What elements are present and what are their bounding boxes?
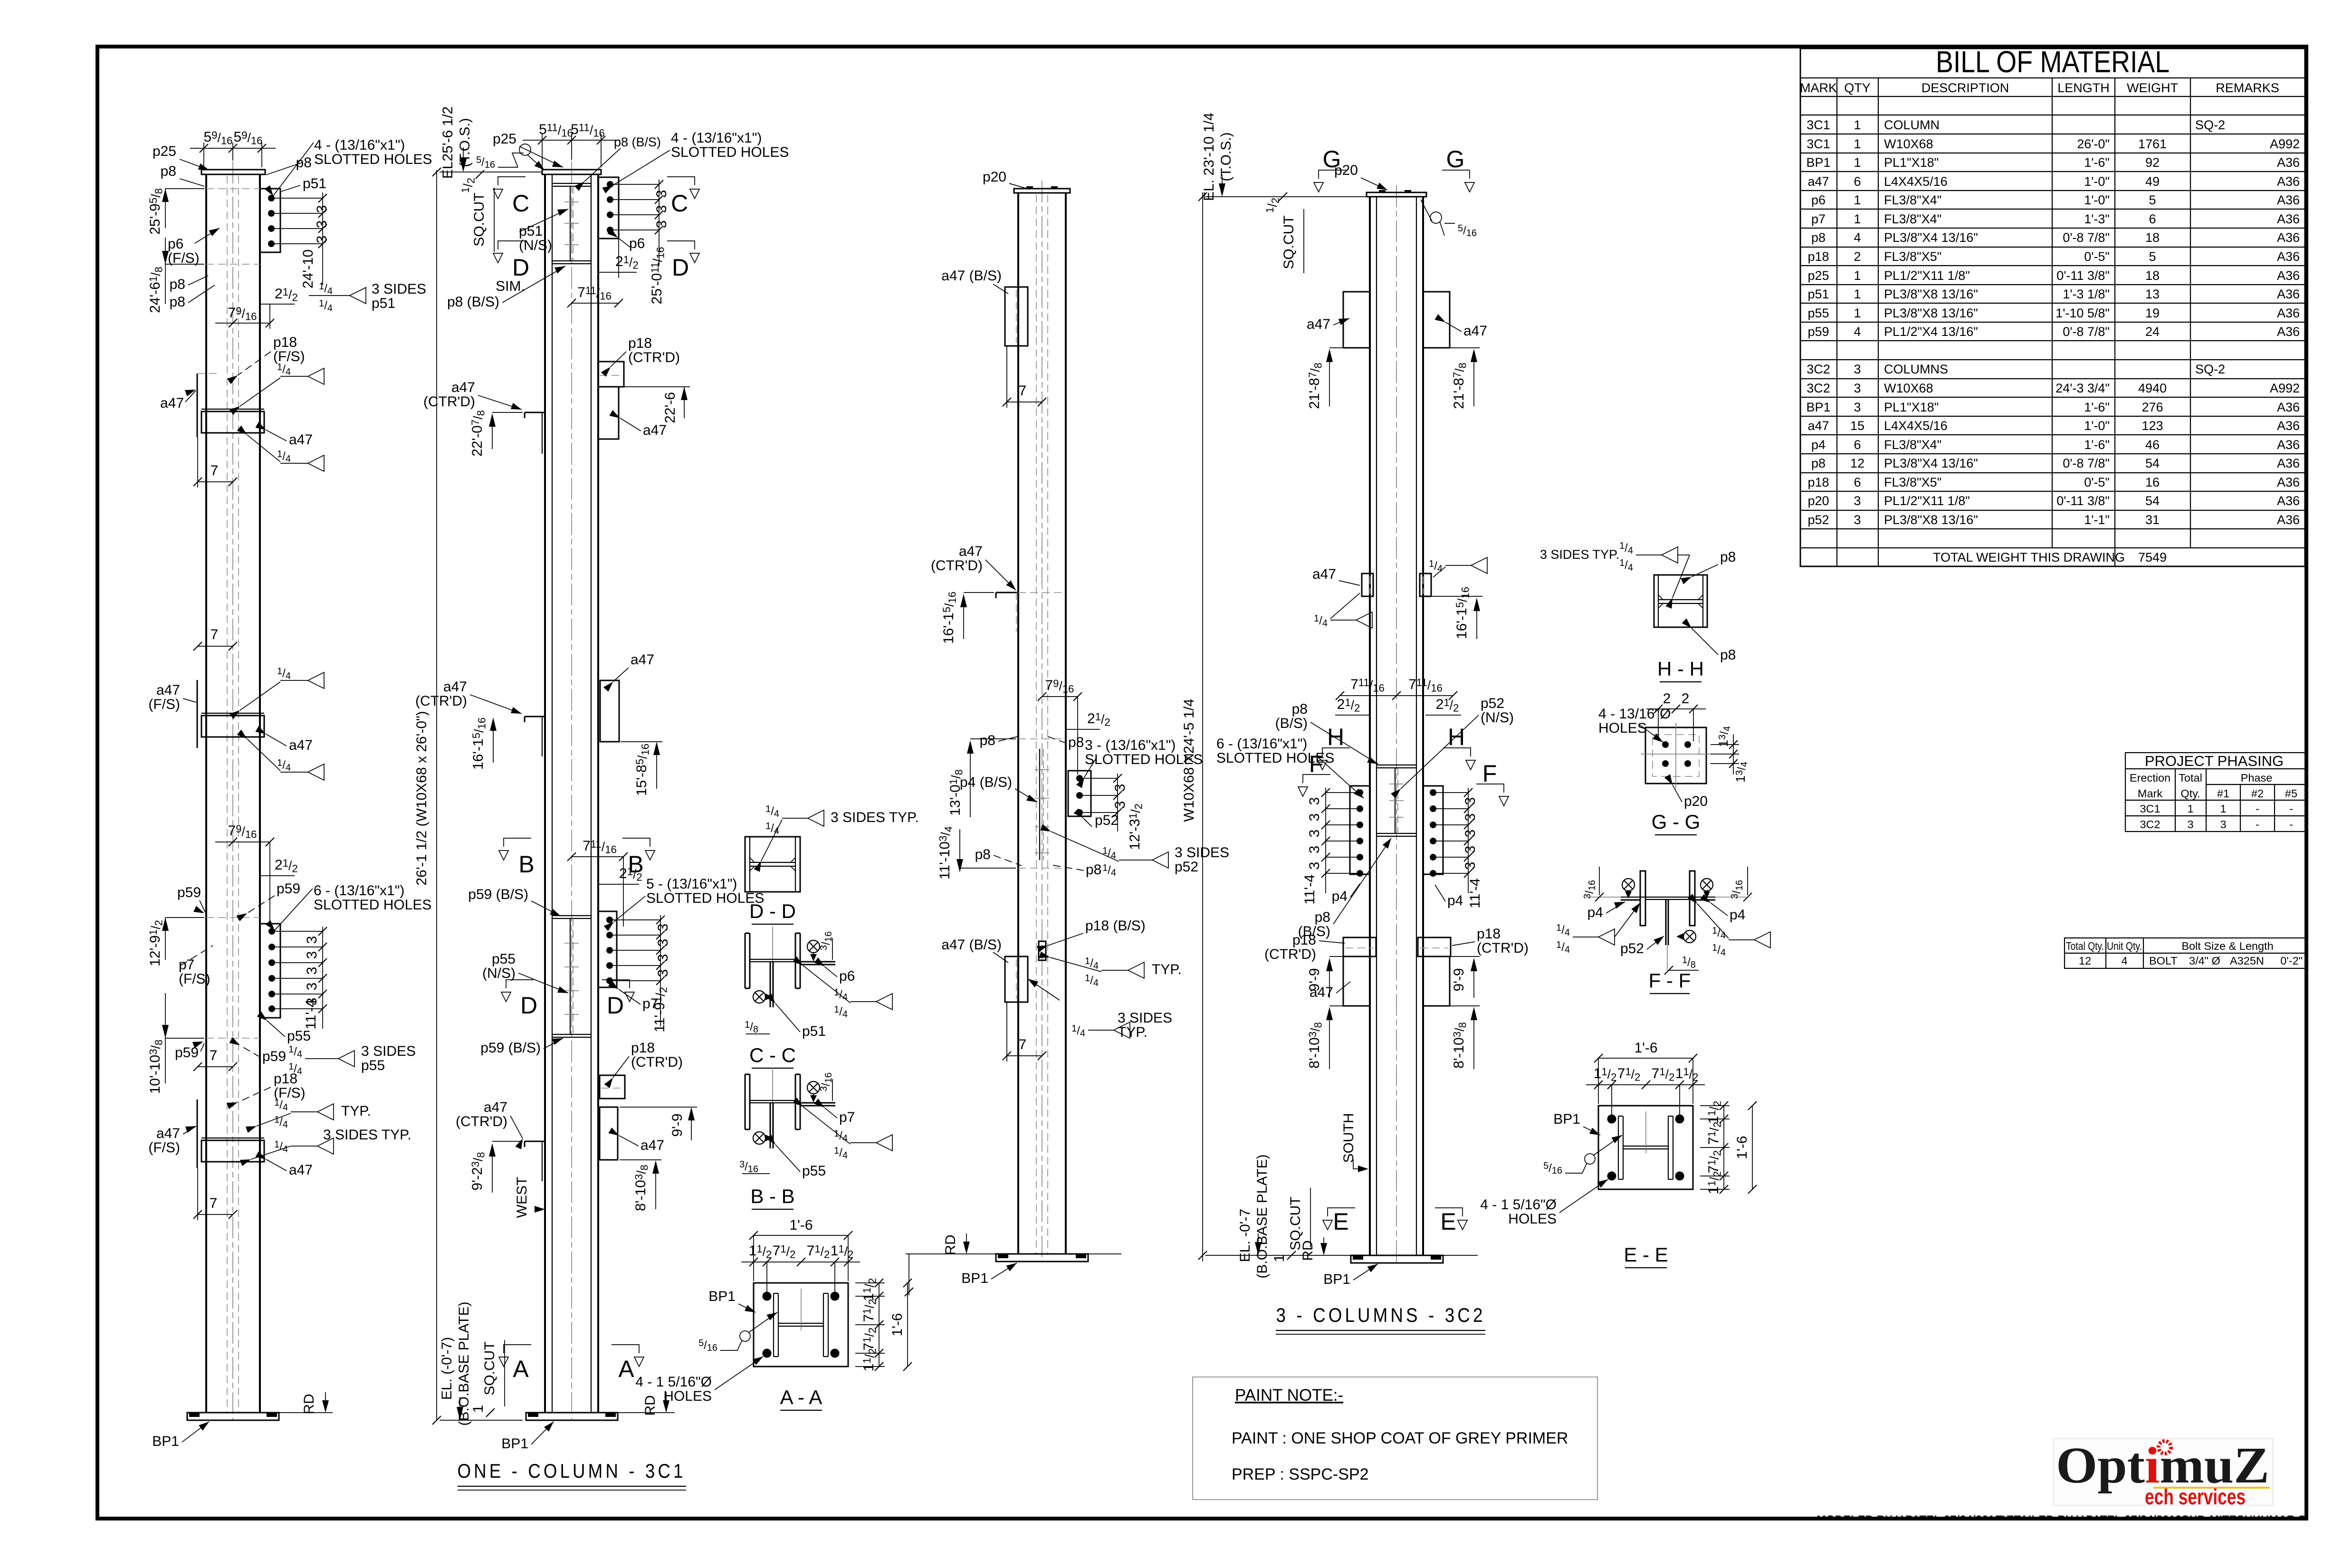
base plate BP1 column2 — [526, 1413, 618, 1420]
svg-text:(F/S): (F/S) — [179, 971, 210, 987]
svg-text:1: 1 — [1854, 212, 1861, 226]
svg-text:1'-3": 1'-3" — [2084, 212, 2110, 226]
svg-text:Phase: Phase — [2241, 772, 2273, 784]
svg-text:1'-0": 1'-0" — [2084, 174, 2110, 189]
svg-text:FL3/8"X5": FL3/8"X5" — [1884, 249, 1941, 264]
bolt summary table — [2065, 938, 2306, 968]
svg-text:Mark: Mark — [2138, 787, 2162, 800]
svg-text:3 SIDES TYP.: 3 SIDES TYP. — [831, 810, 919, 825]
svg-text:p8: p8 — [1720, 549, 1736, 565]
svg-text:6: 6 — [1854, 475, 1861, 489]
svg-text:p8: p8 — [1292, 701, 1308, 717]
svg-text:1'-0": 1'-0" — [2084, 419, 2110, 433]
connection plate p51 with bolts — [260, 189, 327, 285]
svg-text:3: 3 — [655, 969, 671, 977]
svg-text:FL3/8"X5": FL3/8"X5" — [1884, 475, 1941, 489]
column 3C2 body flange view — [1018, 181, 1066, 1262]
svg-text:54: 54 — [2145, 456, 2160, 470]
svg-text:21'-87/8: 21'-87/8 — [1451, 363, 1469, 409]
a47 CTR'D angle col3 mid — [996, 593, 1018, 598]
svg-text:p52: p52 — [1620, 941, 1644, 956]
p18 (B/S) bar col3 — [1039, 941, 1046, 960]
svg-text:6: 6 — [1854, 174, 1861, 189]
section D markers — [498, 241, 526, 249]
svg-text:p4: p4 — [1811, 438, 1826, 452]
base plate BP1 col3 — [905, 1254, 1121, 1296]
PROJECT PHASING table — [2125, 753, 2306, 832]
svg-text:FL3/8"X4": FL3/8"X4" — [1884, 212, 1941, 226]
svg-text:18: 18 — [2145, 268, 2160, 283]
svg-text:Bolt Size & Length: Bolt Size & Length — [2181, 940, 2273, 952]
svg-text:HOLES: HOLES — [663, 1388, 712, 1404]
svg-text:E: E — [1440, 1208, 1456, 1235]
svg-text:p59 (B/S): p59 (B/S) — [480, 1040, 541, 1056]
svg-text:COLUMN: COLUMN — [1884, 118, 1940, 132]
BOM header row — [1800, 81, 2279, 95]
svg-text:p20: p20 — [1807, 494, 1829, 508]
svg-text:3: 3 — [655, 924, 671, 932]
svg-text:3 - COLUMNS - 3C2: 3 - COLUMNS - 3C2 — [1276, 1304, 1486, 1326]
svg-text:p18: p18 — [1477, 926, 1501, 942]
svg-text:LENGTH: LENGTH — [2057, 81, 2110, 95]
svg-text:1'-6": 1'-6" — [2084, 400, 2110, 414]
svg-text:12'-91/2: 12'-91/2 — [147, 920, 165, 966]
splice dashed lines col3 — [1018, 738, 1066, 739]
svg-text:p59: p59 — [277, 881, 300, 897]
clip angle a47 band 3 — [197, 1100, 264, 1168]
cap plate p20 plan view — [1645, 727, 1706, 784]
svg-text:3: 3 — [2220, 818, 2226, 831]
svg-text:a47: a47 — [1312, 566, 1336, 582]
svg-text:4: 4 — [1854, 230, 1861, 245]
svg-text:SQ-2: SQ-2 — [2195, 118, 2225, 132]
svg-text:8'-103/8: 8'-103/8 — [1307, 1022, 1324, 1069]
svg-text:3C2: 3C2 — [1807, 362, 1830, 376]
svg-text:3: 3 — [1307, 862, 1322, 870]
svg-text:p52: p52 — [1807, 513, 1829, 527]
svg-text:1'-0": 1'-0" — [2084, 193, 2110, 207]
svg-text:E: E — [1333, 1208, 1348, 1235]
svg-text:4 - (13/16"x1"): 4 - (13/16"x1") — [314, 137, 405, 153]
svg-text:3 SIDES: 3 SIDES — [1118, 1010, 1172, 1026]
svg-text:HOLES: HOLES — [1508, 1211, 1557, 1227]
svg-text:PL1"X18": PL1"X18" — [1884, 155, 1939, 170]
overall extension line col4 — [1202, 192, 1203, 1262]
svg-text:A36: A36 — [2277, 249, 2300, 264]
svg-text:a47: a47 — [289, 1162, 313, 1178]
connection plate p55 with bolts — [260, 924, 327, 1029]
section E markers — [1328, 1208, 1355, 1216]
svg-text:0'-11 3/8": 0'-11 3/8" — [2056, 268, 2110, 283]
svg-text:p7: p7 — [1811, 212, 1826, 226]
svg-text:A36: A36 — [2277, 475, 2300, 489]
svg-text:BP1: BP1 — [1806, 155, 1830, 170]
svg-text:a47: a47 — [631, 652, 654, 668]
svg-text:EL25'-6 1/2: EL25'-6 1/2 — [440, 106, 456, 179]
svg-text:3: 3 — [314, 205, 330, 213]
svg-text:A36: A36 — [2277, 212, 2300, 226]
hidden p4 plate center dashes — [1039, 749, 1040, 860]
svg-text:QTY: QTY — [1844, 81, 1871, 95]
svg-text:Total Qty.: Total Qty. — [2066, 940, 2104, 952]
svg-text:p59: p59 — [1807, 325, 1829, 339]
svg-text:SLOTTED HOLES: SLOTTED HOLES — [314, 897, 431, 913]
left dims 12'-9 1/2 and 10'-10 3/8 — [165, 918, 204, 1083]
svg-text:11'-4: 11'-4 — [1467, 878, 1483, 908]
svg-text:(N/S): (N/S) — [519, 238, 552, 253]
a47 CTR'D angle left mid — [525, 412, 545, 454]
svg-text:3 SIDES TYP.: 3 SIDES TYP. — [323, 1127, 411, 1143]
svg-text:3: 3 — [654, 205, 669, 213]
svg-text:SLOTTED HOLES: SLOTTED HOLES — [671, 144, 789, 160]
svg-text:BOLT: BOLT — [2149, 955, 2178, 967]
svg-text:BP1: BP1 — [1806, 400, 1830, 414]
cap plate p20 col4 — [1367, 192, 1426, 197]
svg-text:11'-4: 11'-4 — [1302, 874, 1318, 905]
svg-text:EL. -0'-7: EL. -0'-7 — [1237, 1209, 1253, 1262]
svg-text:p8: p8 — [1811, 456, 1826, 470]
svg-text:PAINT NOTE:-: PAINT NOTE:- — [1235, 1386, 1343, 1405]
svg-text:3C2: 3C2 — [2140, 818, 2160, 831]
column section inside — [774, 1293, 828, 1357]
svg-text:BP1: BP1 — [1323, 1272, 1350, 1287]
svg-text:p8: p8 — [980, 733, 995, 748]
svg-text:RD: RD — [1300, 1240, 1316, 1261]
bolt plates p4 col4 — [1321, 786, 1370, 893]
svg-text:1: 1 — [1854, 268, 1861, 283]
svg-text:1: 1 — [2220, 803, 2226, 815]
svg-text:(N/S): (N/S) — [1481, 710, 1514, 726]
svg-text:10'-103/8: 10'-103/8 — [147, 1040, 165, 1094]
svg-text:SOUTH: SOUTH — [1341, 1113, 1357, 1163]
right dims 1 3/4 G-G — [1711, 744, 1739, 745]
svg-text:L4X4X5/16: L4X4X5/16 — [1884, 174, 1948, 189]
svg-text:(N/S): (N/S) — [482, 966, 516, 981]
svg-text:11'-4: 11'-4 — [303, 999, 319, 1030]
BOM grid vertical lines — [1837, 78, 2190, 566]
svg-text:7: 7 — [1019, 383, 1027, 399]
base plate BP1 plan E-E — [1598, 1106, 1693, 1189]
svg-text:p4: p4 — [1332, 889, 1348, 904]
svg-text:-: - — [2289, 803, 2293, 815]
svg-text:-: - — [2289, 818, 2293, 831]
svg-text:SLOTTED HOLES: SLOTTED HOLES — [646, 890, 764, 906]
svg-text:6: 6 — [1854, 438, 1861, 452]
svg-text:3 SIDES: 3 SIDES — [372, 281, 426, 297]
connection plate p7 with bolts — [598, 911, 665, 1026]
svg-text:F: F — [1482, 760, 1497, 787]
svg-text:-: - — [2256, 803, 2259, 815]
svg-text:p25: p25 — [153, 143, 176, 159]
a47 right rect mid (15'-8 5/16) — [600, 680, 619, 742]
svg-text:p51: p51 — [303, 176, 326, 191]
section C-C body — [745, 933, 746, 988]
top splice plates p8 and stiffener p51 N/S — [552, 183, 591, 264]
svg-text:p8: p8 — [1086, 862, 1101, 878]
svg-text:p52: p52 — [1481, 696, 1504, 711]
OptimuZ tech services logo — [2054, 1437, 2273, 1509]
svg-text:COLUMNS: COLUMNS — [1884, 362, 1948, 376]
svg-text:0'-11 3/8": 0'-11 3/8" — [2056, 494, 2110, 508]
svg-text:#1: #1 — [2217, 787, 2229, 800]
a47 upper blocks col4 — [1343, 292, 1370, 348]
svg-text:p25: p25 — [493, 131, 516, 147]
svg-text:p55: p55 — [1807, 306, 1829, 320]
svg-text:3C1: 3C1 — [1807, 118, 1830, 132]
svg-text:B: B — [518, 851, 534, 878]
svg-text:ONE - COLUMN - 3C1: ONE - COLUMN - 3C1 — [458, 1460, 686, 1482]
svg-text:3/4" Ø: 3/4" Ø — [2189, 955, 2220, 967]
svg-text:13'-01/8: 13'-01/8 — [947, 769, 965, 816]
svg-text:3: 3 — [1854, 494, 1861, 508]
right dims E-E — [1700, 1105, 1730, 1106]
svg-text:3: 3 — [1854, 381, 1861, 395]
svg-text:3: 3 — [1463, 830, 1478, 838]
section C markers top — [498, 177, 526, 185]
svg-text:a47: a47 — [1807, 174, 1829, 189]
svg-text:5: 5 — [2149, 249, 2156, 264]
svg-text:C - C: C - C — [749, 1044, 796, 1066]
svg-text:p8: p8 — [1068, 735, 1084, 750]
svg-text:8'-103/8: 8'-103/8 — [1451, 1022, 1469, 1069]
svg-text:TYP.: TYP. — [341, 1103, 371, 1119]
svg-text:3: 3 — [1307, 797, 1322, 805]
svg-text:a47: a47 — [443, 679, 467, 695]
svg-text:a47: a47 — [484, 1100, 507, 1115]
svg-text:PL3/8"X8 13/16": PL3/8"X8 13/16" — [1884, 513, 1978, 527]
section F markers — [1303, 774, 1330, 783]
anchor holes — [763, 1292, 772, 1301]
svg-text:ech services: ech services — [2145, 1484, 2246, 1509]
svg-text:p6: p6 — [839, 968, 855, 984]
svg-text:1: 1 — [1854, 306, 1861, 320]
svg-text:p8 (B/S): p8 (B/S) — [614, 135, 661, 149]
svg-text:D: D — [607, 992, 624, 1019]
svg-text:8'-103/8: 8'-103/8 — [633, 1165, 650, 1211]
lower splice plates p59 and stiffener p55 N/S — [552, 916, 591, 1037]
a47 angle right below p18 — [598, 387, 619, 439]
a47 mid small angles col4 — [1362, 574, 1431, 596]
svg-text:WEST: WEST — [514, 1177, 530, 1218]
clipped title block text at bottom edge — [0, 1513, 2352, 1568]
svg-text:PL3/8"X4 13/16": PL3/8"X4 13/16" — [1884, 456, 1978, 470]
hidden web dashed lines — [227, 176, 228, 1413]
svg-text:18: 18 — [2145, 230, 2160, 245]
svg-text:PL1"X18": PL1"X18" — [1884, 400, 1939, 414]
svg-text:p51: p51 — [1807, 287, 1829, 301]
ext lines 3/16 left — [1587, 897, 1621, 898]
svg-text:3: 3 — [655, 939, 671, 947]
svg-text:A - A: A - A — [780, 1386, 822, 1408]
svg-text:p18: p18 — [273, 335, 297, 350]
svg-text:19: 19 — [2145, 306, 2160, 320]
svg-text:31: 31 — [2145, 513, 2160, 527]
svg-text:6 - (13/16"x1"): 6 - (13/16"x1") — [314, 883, 404, 899]
a47 CTR'D left angle bottom col2 — [525, 1141, 545, 1181]
splice dashed lines p8 levels — [206, 188, 260, 189]
svg-text:(CTR'D): (CTR'D) — [931, 558, 983, 574]
svg-text:3 - (13/16"x1"): 3 - (13/16"x1") — [1085, 737, 1176, 753]
svg-text:(CTR'D): (CTR'D) — [631, 1054, 683, 1070]
svg-text:p8: p8 — [170, 294, 185, 310]
svg-text:p52: p52 — [1095, 813, 1119, 828]
svg-text:4: 4 — [1854, 325, 1861, 339]
base plate BP1 col4 — [1205, 1255, 1478, 1263]
svg-text:A36: A36 — [2277, 456, 2300, 470]
svg-text:1761: 1761 — [2138, 137, 2167, 151]
svg-text:p55: p55 — [492, 951, 516, 967]
plug welds — [807, 940, 820, 953]
section H markers — [1322, 748, 1350, 756]
svg-text:C: C — [512, 190, 529, 217]
svg-text:2: 2 — [1663, 691, 1671, 707]
svg-text:7: 7 — [210, 627, 219, 642]
svg-text:p7: p7 — [839, 1109, 855, 1125]
svg-text:1'-3 1/8": 1'-3 1/8" — [2063, 287, 2110, 301]
svg-text:D: D — [512, 254, 529, 281]
svg-text:3: 3 — [304, 983, 320, 991]
p6 plate extending right — [800, 961, 835, 963]
svg-text:1'-6": 1'-6" — [2084, 438, 2110, 452]
svg-text:EL. (-0'-7): EL. (-0'-7) — [439, 1337, 455, 1400]
svg-text:a47: a47 — [156, 682, 180, 698]
svg-text:PL1/2"X11 1/8": PL1/2"X11 1/8" — [1884, 494, 1970, 508]
section G markers — [1319, 170, 1346, 179]
svg-text:1: 1 — [1854, 155, 1861, 170]
svg-text:7: 7 — [1019, 1037, 1027, 1052]
BOM rows 3C2 group — [1806, 362, 2300, 527]
svg-text:PREP : SSPC-SP2: PREP : SSPC-SP2 — [1232, 1465, 1369, 1483]
svg-text:A: A — [513, 1356, 529, 1382]
svg-text:49: 49 — [2145, 174, 2160, 189]
svg-text:#2: #2 — [2251, 787, 2264, 800]
svg-text:p4 (B/S): p4 (B/S) — [960, 774, 1012, 790]
svg-text:15: 15 — [1850, 419, 1864, 433]
svg-text:3: 3 — [1854, 513, 1861, 527]
p59 splice dashed lines — [206, 917, 260, 918]
svg-text:276: 276 — [2142, 400, 2163, 414]
a47 (B/S) upper rect col3 — [1005, 287, 1028, 346]
svg-text:WEIGHT: WEIGHT — [2127, 81, 2178, 95]
weld flags at band1 — [280, 376, 308, 377]
svg-text:5 - (13/16"x1"): 5 - (13/16"x1") — [646, 876, 737, 892]
svg-text:3: 3 — [655, 954, 671, 962]
svg-text:SQ.CUT: SQ.CUT — [471, 192, 487, 246]
svg-text:p6: p6 — [629, 236, 645, 251]
svg-text:3: 3 — [654, 220, 669, 229]
svg-text:3: 3 — [1463, 846, 1478, 854]
svg-text:(CTR'D): (CTR'D) — [456, 1114, 507, 1129]
svg-text:1'-6": 1'-6" — [2084, 155, 2110, 170]
svg-text:FL3/8"X4": FL3/8"X4" — [1884, 193, 1941, 207]
svg-text:3: 3 — [2187, 818, 2193, 831]
svg-text:p8: p8 — [975, 847, 991, 862]
svg-text:7: 7 — [210, 463, 219, 478]
svg-text:PL3/8"X8 13/16": PL3/8"X8 13/16" — [1884, 287, 1978, 301]
BOM grid horizontal lines — [1800, 78, 2305, 548]
svg-text:A36: A36 — [2277, 494, 2300, 508]
svg-text:0'-8 7/8": 0'-8 7/8" — [2063, 456, 2110, 470]
svg-text:1: 1 — [1854, 137, 1861, 151]
svg-text:D: D — [672, 254, 689, 281]
svg-text:26'-1 1/2 (W10X68 x 26'-0"): 26'-1 1/2 (W10X68 x 26'-0") — [414, 711, 430, 885]
section B-B body — [745, 1074, 746, 1129]
svg-text:p18 (B/S): p18 (B/S) — [1085, 918, 1146, 934]
svg-text:3: 3 — [1112, 784, 1128, 792]
svg-text:Qty.: Qty. — [2180, 787, 2200, 800]
svg-text:-: - — [2256, 818, 2259, 831]
svg-text:0'-2": 0'-2" — [2280, 955, 2303, 967]
left elevation dims 25'-9 5/8 / 24'-6 1/8 — [165, 189, 204, 304]
svg-text:(CTR'D): (CTR'D) — [415, 693, 467, 709]
column 3C2 web view body — [1370, 185, 1423, 1263]
a47 right rect lower col2 — [600, 1107, 618, 1160]
svg-text:B - B: B - B — [750, 1185, 794, 1207]
svg-text:BP1: BP1 — [961, 1271, 988, 1286]
svg-text:PROJECT PHASING: PROJECT PHASING — [2145, 753, 2284, 769]
svg-text:6: 6 — [2149, 212, 2156, 226]
svg-text:p59: p59 — [262, 1049, 286, 1064]
svg-text:7549: 7549 — [2138, 550, 2167, 564]
svg-text:L4X4X5/16: L4X4X5/16 — [1884, 419, 1948, 433]
svg-text:p8: p8 — [170, 277, 185, 292]
svg-text:a47: a47 — [451, 380, 475, 395]
svg-text:p59: p59 — [177, 885, 201, 900]
svg-text:1'-6: 1'-6 — [789, 1217, 813, 1233]
svg-text:(F/S): (F/S) — [148, 1140, 180, 1156]
svg-text:p20: p20 — [1684, 794, 1708, 809]
svg-text:9'-9: 9'-9 — [669, 1113, 685, 1137]
svg-text:p51: p51 — [372, 296, 395, 311]
clip angle a47 band 2 — [197, 680, 264, 748]
svg-text:a47: a47 — [643, 422, 667, 438]
svg-text:3: 3 — [1307, 813, 1322, 822]
svg-text:123: 123 — [2142, 419, 2163, 433]
svg-text:BP1: BP1 — [501, 1436, 528, 1452]
svg-text:A36: A36 — [2277, 419, 2300, 433]
svg-text:DESCRIPTION: DESCRIPTION — [1922, 81, 2009, 95]
svg-text:W10X68: W10X68 — [1884, 137, 1933, 151]
section D-D body — [745, 837, 800, 892]
top width dims 5 9/16 5 9/16 — [190, 143, 276, 167]
svg-text:W10X68 X24'-5 1/4: W10X68 X24'-5 1/4 — [1181, 698, 1197, 822]
svg-text:TYP.: TYP. — [1152, 962, 1182, 977]
svg-text:D: D — [520, 992, 537, 1019]
svg-text:9'-9: 9'-9 — [1307, 968, 1322, 991]
svg-text:PL3/8"X8 13/16": PL3/8"X8 13/16" — [1884, 306, 1978, 320]
svg-text:1'-6: 1'-6 — [1734, 1136, 1750, 1159]
svg-text:0'-8 7/8": 0'-8 7/8" — [2063, 230, 2110, 245]
svg-text:6 - (13/16"x1"): 6 - (13/16"x1") — [1216, 736, 1307, 752]
svg-text:p52: p52 — [1175, 859, 1198, 875]
svg-text:A36: A36 — [2277, 155, 2300, 170]
svg-text:p51: p51 — [519, 223, 543, 239]
p18 CTR'D blocks col4 — [1343, 937, 1451, 956]
svg-text:BP1: BP1 — [152, 1434, 179, 1449]
svg-text:26'-0": 26'-0" — [2077, 137, 2110, 151]
svg-text:3: 3 — [1307, 846, 1322, 854]
svg-text:p4: p4 — [1587, 905, 1603, 920]
svg-text:3 SIDES TYP.: 3 SIDES TYP. — [1540, 547, 1619, 562]
connection plate p52 col3 — [1068, 771, 1122, 832]
svg-text:3: 3 — [304, 951, 320, 959]
cap plate p20 col3 — [1014, 189, 1070, 193]
svg-text:PL1/2"X4 13/16": PL1/2"X4 13/16" — [1884, 325, 1978, 339]
svg-text:0'-5": 0'-5" — [2084, 249, 2110, 264]
connection plate p6 with bolts — [598, 177, 663, 266]
svg-text:3: 3 — [1463, 797, 1478, 805]
top width dims 5 11/16 x2 — [523, 134, 620, 167]
